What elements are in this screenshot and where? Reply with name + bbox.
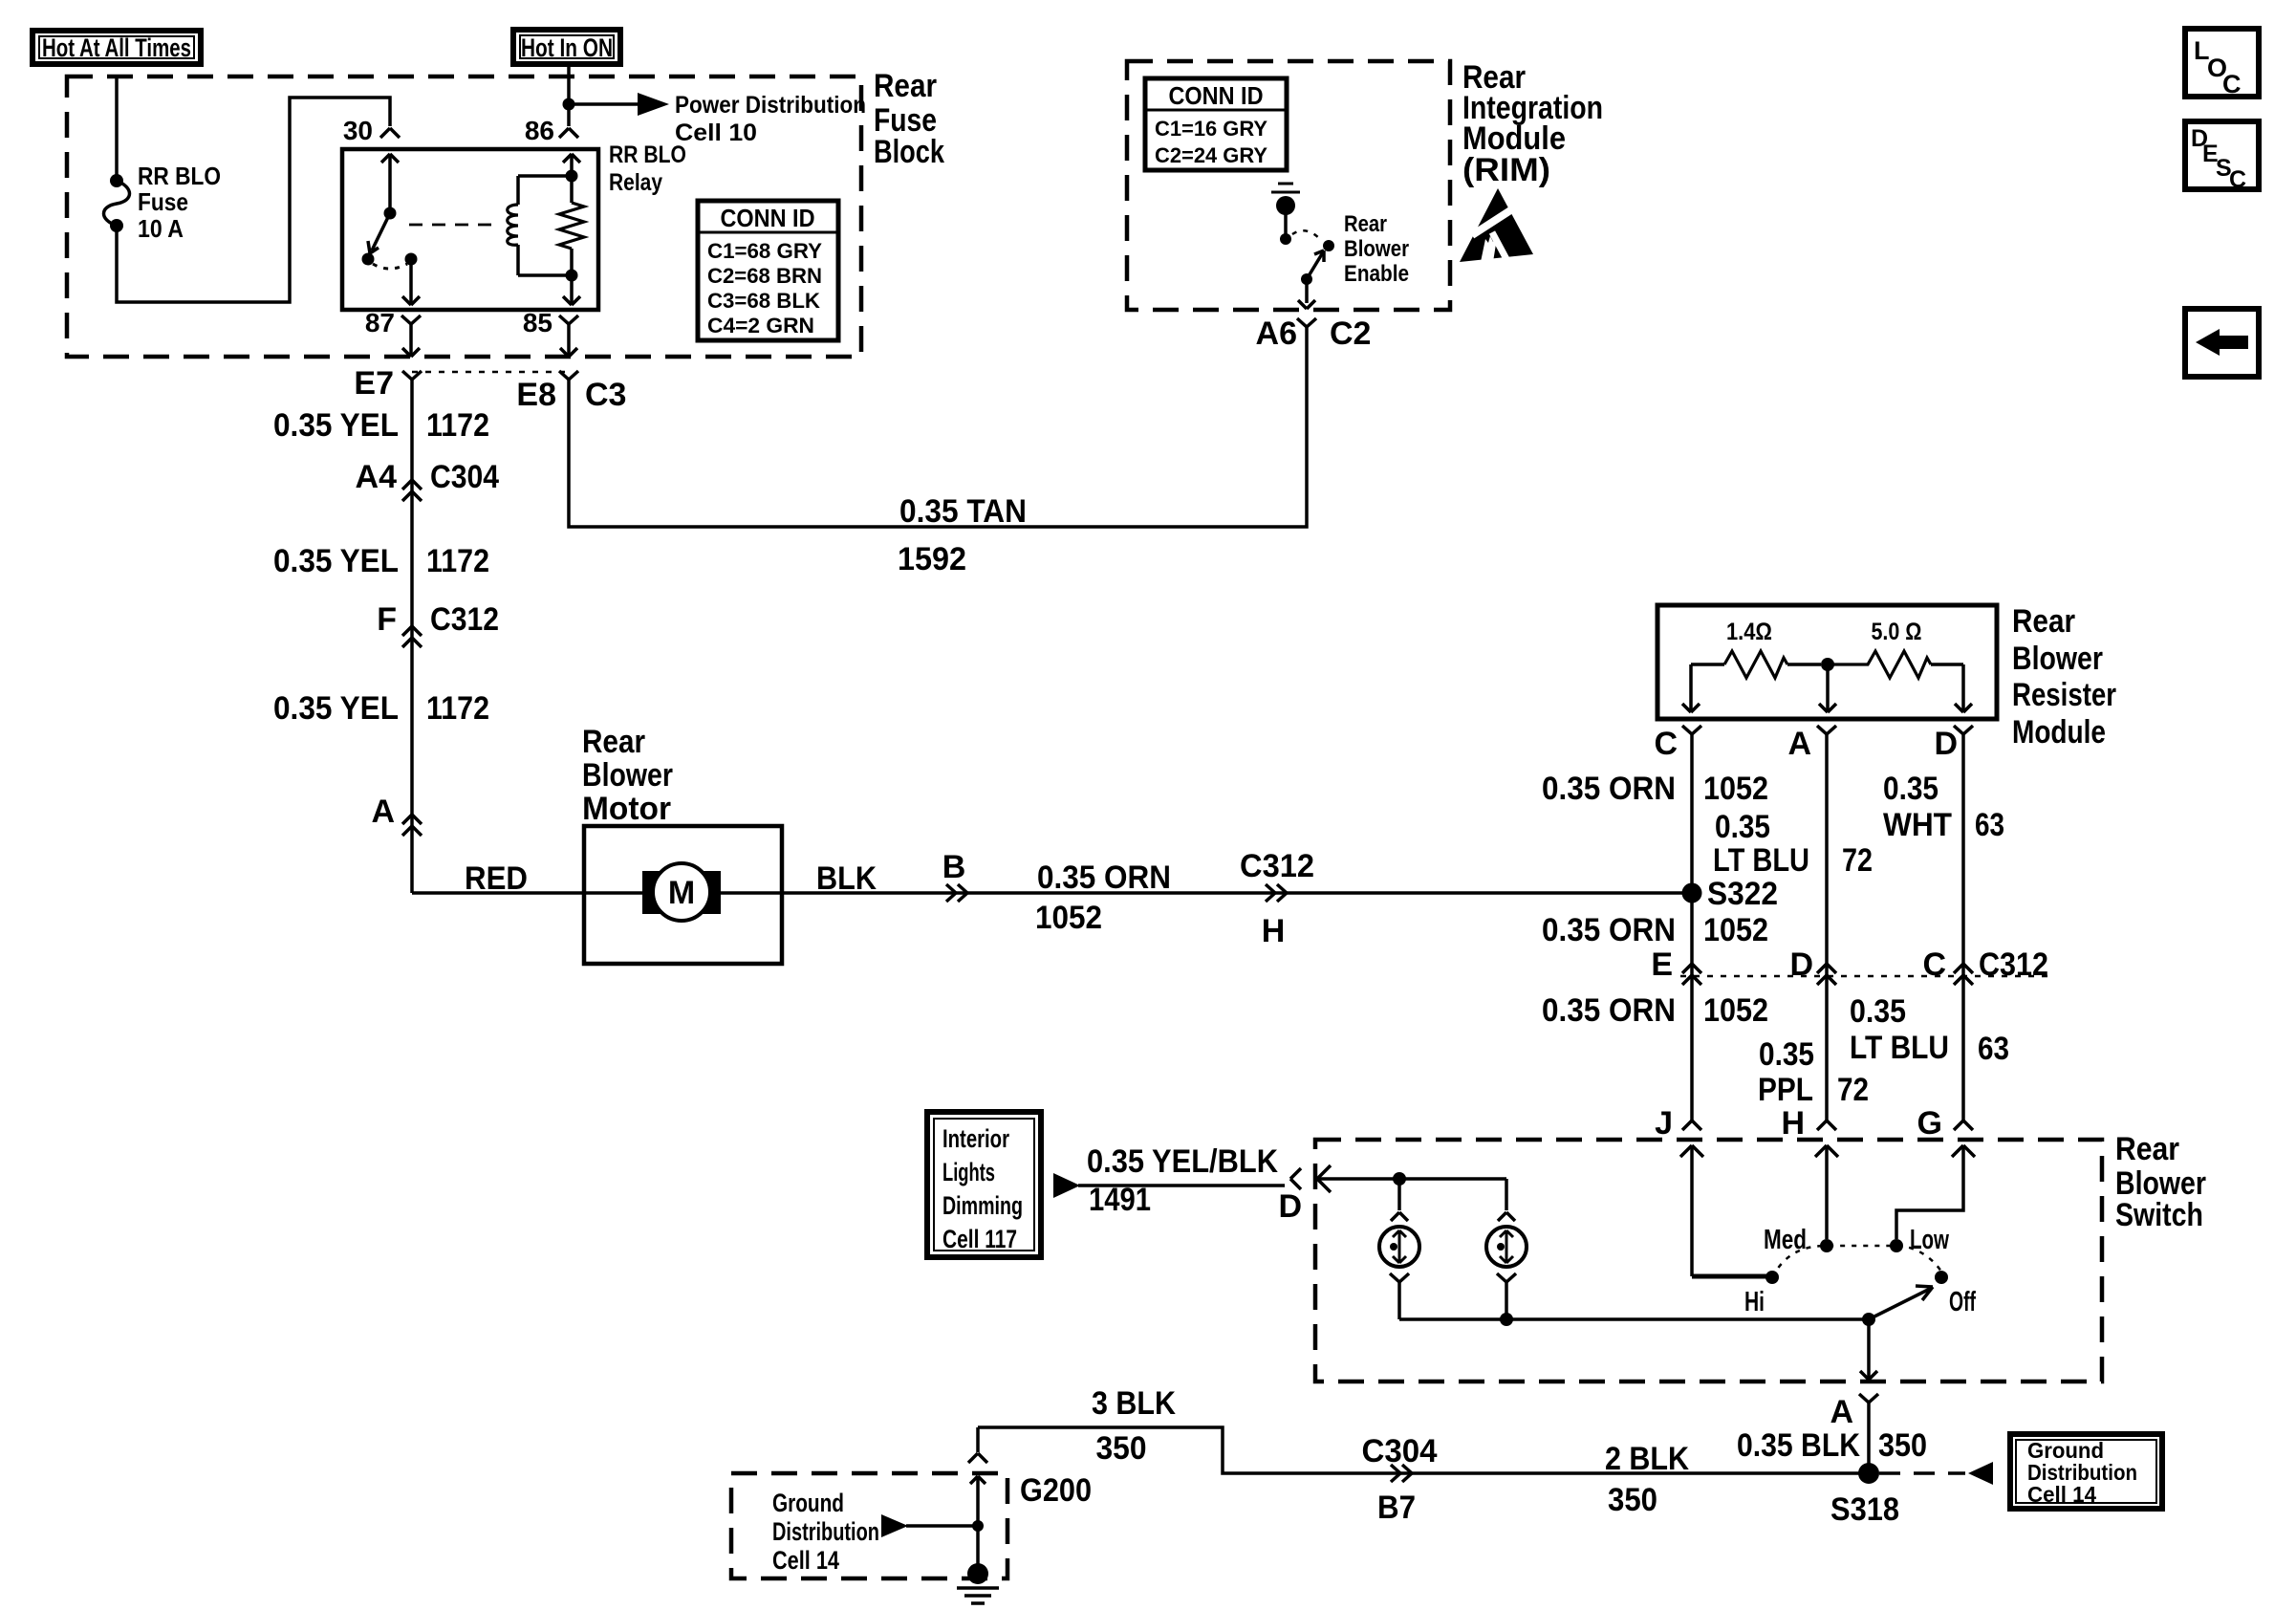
- svg-text:1.4Ω: 1.4Ω: [1726, 619, 1772, 645]
- label: Rear Blower Switch: [2115, 1131, 2206, 1233]
- svg-text:0.35 BLK: 0.35 BLK: [1737, 1427, 1860, 1464]
- svg-text:0.35: 0.35: [1883, 771, 1939, 807]
- ESD warning symbol: [1460, 188, 1533, 262]
- wire: down to G200: [976, 1427, 980, 1452]
- svg-text:0.35 ORN: 0.35 ORN: [1542, 771, 1676, 807]
- svg-text:1172: 1172: [426, 543, 489, 579]
- svg-text:A4: A4: [356, 459, 398, 495]
- label: Rear Fuse Block: [874, 68, 944, 170]
- svg-text:1052: 1052: [1703, 771, 1768, 807]
- relay common contact (pin30 side): [381, 154, 399, 220]
- svg-text:Switch: Switch: [2115, 1197, 2203, 1233]
- svg-text:C1=16 GRY: C1=16 GRY: [1155, 117, 1267, 141]
- relay RR BLO Relay box: [342, 149, 598, 310]
- connector A (motor): [371, 794, 422, 836]
- wire: E8/C3 to RIM A6 (0.35 TAN 1592): [569, 335, 1307, 527]
- svg-text:Enable: Enable: [1344, 261, 1409, 287]
- svg-text:S318: S318: [1830, 1491, 1899, 1528]
- label: 0.35 YEL 1172 (1): [273, 407, 489, 444]
- switch pin A: [1830, 1394, 1878, 1430]
- svg-text:C312: C312: [1240, 848, 1314, 884]
- wire: pin A to S318 (0.35 BLK 350): [1867, 1410, 1871, 1473]
- svg-text:Ground: Ground: [772, 1489, 844, 1517]
- svg-text:0.35 YEL/BLK: 0.35 YEL/BLK: [1087, 1143, 1278, 1180]
- wire: S322 to connector E (0.35 ORN): [1690, 893, 1694, 1120]
- label: Rear Blower Enable: [1344, 211, 1409, 287]
- relay pin 85: [523, 308, 578, 337]
- svg-text:Med: Med: [1764, 1225, 1807, 1255]
- splice S318: [1830, 1463, 1899, 1528]
- svg-text:1052: 1052: [1703, 912, 1768, 948]
- svg-text:Rear: Rear: [582, 724, 645, 760]
- connector G200: [968, 1453, 1092, 1509]
- switch D terminal wire (panel lamps feed): [1290, 1165, 1506, 1192]
- connector C (C312): [1922, 946, 2048, 985]
- svg-text:G200: G200: [1020, 1472, 1092, 1509]
- svg-text:Rear: Rear: [874, 68, 937, 104]
- pin E8 / C3: [516, 371, 626, 413]
- svg-text:Blower: Blower: [582, 757, 673, 794]
- label: Rear Blower Motor: [582, 724, 673, 827]
- svg-text:Motor: Motor: [582, 791, 671, 827]
- label: 0.35 PPL 72: [1758, 1036, 1869, 1108]
- fuse RR BLO 10A: [104, 174, 130, 232]
- Rear Fuse Block dashed enclosure: [67, 76, 861, 357]
- svg-text:0.35 TAN: 0.35 TAN: [899, 493, 1027, 530]
- resistor 5.0 ohm: [1833, 619, 1963, 678]
- label: 0.35 YEL/BLK 1491: [1087, 1143, 1278, 1218]
- module junction dot: [1821, 658, 1834, 671]
- ground G200 symbol: [957, 1563, 999, 1603]
- svg-text:72: 72: [1837, 1072, 1869, 1108]
- wire: 3 BLK 350 ground run: [978, 1427, 1862, 1473]
- svg-text:M: M: [668, 875, 695, 911]
- relay resistor (parallel): [559, 170, 584, 282]
- wire: 0.35 YEL/BLK 1491 to dimming: [1053, 1173, 1285, 1198]
- svg-text:1172: 1172: [426, 690, 489, 727]
- rear blower enable blade arrow: [1301, 250, 1324, 285]
- wire: motor BLK output: [782, 891, 1692, 895]
- svg-text:C304: C304: [430, 459, 499, 495]
- module pin A: [1787, 726, 1836, 762]
- svg-text:Cell 14: Cell 14: [2027, 1482, 2096, 1507]
- svg-text:Blower: Blower: [2012, 641, 2103, 677]
- resistor 1.4 ohm: [1691, 619, 1821, 678]
- connector E (C312): [1651, 946, 1701, 985]
- pin A6 C2: [1256, 315, 1372, 352]
- svg-text:C312: C312: [430, 601, 499, 638]
- wire: enable to pin A6: [1298, 279, 1315, 309]
- wire: pin C to S322 (0.35 ORN): [1690, 742, 1694, 893]
- wire: A down and right to motor (RED): [412, 891, 584, 895]
- switch position dashed arc: [1772, 1246, 1941, 1277]
- Med contact dot: [1764, 1225, 1833, 1255]
- connector C312 H: [1240, 848, 1314, 949]
- svg-text:Rear: Rear: [2012, 603, 2075, 640]
- svg-text:B7: B7: [1377, 1490, 1416, 1526]
- svg-text:3 BLK: 3 BLK: [1092, 1385, 1176, 1422]
- svg-text:0.35: 0.35: [1850, 993, 1906, 1030]
- lamp return bus: [1399, 1313, 1869, 1326]
- svg-text:D: D: [1934, 726, 1958, 762]
- label: RED: [465, 860, 528, 897]
- svg-text:CONN ID: CONN ID: [721, 204, 815, 232]
- RIM switch dashed arc: [1292, 230, 1322, 241]
- wire: Hot In ON to relay pin 86: [567, 64, 571, 126]
- svg-text:1491: 1491: [1089, 1182, 1151, 1218]
- wire: H into switch to Med: [1815, 1145, 1838, 1239]
- wire: pin D down (0.35 WHT 63): [1961, 742, 1965, 1120]
- svg-text:C2: C2: [1330, 315, 1371, 352]
- label box: Hot In ON: [513, 30, 620, 64]
- RIM internal ground: [1271, 184, 1300, 245]
- svg-text:Module: Module: [2012, 714, 2106, 751]
- Rear Blower Resister Module box: [1657, 605, 1997, 719]
- label: 0.35 TAN 1592: [898, 493, 1027, 577]
- svg-text:85: 85: [523, 308, 552, 337]
- svg-text:30: 30: [343, 116, 373, 145]
- svg-text:Power Distribution: Power Distribution: [675, 92, 866, 119]
- svg-text:RED: RED: [465, 860, 528, 897]
- svg-text:0.35 YEL: 0.35 YEL: [273, 690, 399, 727]
- label D (switch): [1278, 1188, 1302, 1225]
- svg-text:F: F: [377, 601, 397, 638]
- svg-text:C: C: [1654, 726, 1678, 762]
- label: Rear Blower Resister Module: [2012, 603, 2116, 751]
- connector F C312: [377, 601, 499, 647]
- svg-text:Off: Off: [1949, 1287, 1976, 1317]
- module pin A lead: [1819, 664, 1836, 712]
- svg-text:0.35 ORN: 0.35 ORN: [1037, 859, 1171, 896]
- svg-text:87: 87: [365, 308, 395, 337]
- svg-text:Lights: Lights: [942, 1158, 995, 1186]
- wire: battery feed into fuse: [115, 77, 119, 181]
- wire: E7 to A4 (0.35 YEL 1172): [410, 387, 414, 893]
- connector D (C312): [1789, 946, 1836, 985]
- svg-text:1052: 1052: [1703, 992, 1768, 1029]
- svg-text:E7: E7: [354, 365, 394, 402]
- pin E7: [354, 365, 422, 402]
- relay pin 87: [365, 308, 421, 337]
- svg-text:Rear: Rear: [1344, 211, 1387, 237]
- svg-text:5.0 Ω: 5.0 Ω: [1872, 619, 1922, 645]
- svg-text:B: B: [942, 849, 966, 885]
- relay NO contact dots: [362, 253, 418, 270]
- svg-text:1592: 1592: [898, 541, 966, 577]
- svg-text:350: 350: [1878, 1427, 1927, 1464]
- wire+arrow: to Power Distribution: [569, 93, 669, 116]
- svg-text:63: 63: [1975, 807, 2004, 843]
- label: 0.35 ORN 1052 (row1): [1542, 771, 1768, 807]
- svg-text:Cell 117: Cell 117: [942, 1225, 1017, 1253]
- svg-text:C2=24 GRY: C2=24 GRY: [1155, 143, 1267, 167]
- switch pin J: [1655, 1105, 1701, 1142]
- connector B: [942, 849, 967, 902]
- svg-text:LT BLU: LT BLU: [1850, 1030, 1949, 1066]
- svg-text:C304: C304: [1362, 1433, 1438, 1469]
- label: 0.35 YEL 1172 (2): [273, 543, 489, 579]
- relay switch blade: [368, 213, 390, 253]
- label: RR BLO Relay: [609, 141, 686, 196]
- svg-text:A: A: [1787, 726, 1811, 762]
- svg-text:10 A: 10 A: [138, 214, 184, 243]
- svg-text:0.35 ORN: 0.35 ORN: [1542, 992, 1676, 1029]
- label: Rear Integration Module (RIM): [1462, 59, 1603, 188]
- svg-text:WHT: WHT: [1883, 807, 1952, 843]
- svg-text:Dimming: Dimming: [942, 1191, 1023, 1220]
- label: 0.35 BLK 350: [1737, 1427, 1927, 1464]
- svg-text:2 BLK: 2 BLK: [1605, 1441, 1689, 1477]
- label box: Interior Lights Dimming Cell 117: [927, 1112, 1041, 1257]
- lamp feed junction dot: [1393, 1172, 1406, 1186]
- label: 0.35 WHT 63: [1883, 771, 2004, 843]
- label box: Ground Distribution Cell 14 (right): [2010, 1434, 2162, 1509]
- wire: G into switch to Low: [1896, 1145, 1975, 1239]
- svg-text:1172: 1172: [426, 407, 489, 444]
- svg-text:0.35: 0.35: [1759, 1036, 1814, 1073]
- svg-text:RR BLO: RR BLO: [609, 141, 686, 168]
- svg-text:Hot In ON: Hot In ON: [521, 33, 613, 62]
- module pin D lead: [1955, 664, 1972, 712]
- label: BLK: [816, 860, 877, 897]
- svg-text:C4=2 GRN: C4=2 GRN: [707, 314, 814, 337]
- svg-text:Block: Block: [874, 134, 944, 170]
- relay coil: [508, 176, 572, 275]
- svg-text:72: 72: [1842, 842, 1873, 879]
- svg-text:C: C: [1922, 946, 1946, 983]
- svg-text:Cell 10: Cell 10: [675, 120, 757, 146]
- wire: pin 87 to fuse block edge: [402, 332, 420, 357]
- svg-text:Low: Low: [1910, 1225, 1949, 1255]
- wire: pin A down (0.35 LT BLU 72): [1825, 742, 1829, 1120]
- panel lamp 1: [1379, 1179, 1419, 1319]
- wire: pin 86 into coil: [563, 154, 580, 176]
- svg-text:1052: 1052: [1035, 900, 1102, 936]
- wire: contact to pin 87: [402, 259, 420, 305]
- label: 0.35 YEL 1172 (3): [273, 690, 489, 727]
- svg-text:0.35 ORN: 0.35 ORN: [1542, 912, 1676, 948]
- switch pin G: [1917, 1105, 1973, 1142]
- module pin C: [1654, 726, 1701, 762]
- relay pin 86: [525, 116, 578, 145]
- svg-text:C: C: [2222, 70, 2242, 98]
- svg-text:CONN ID: CONN ID: [1169, 81, 1264, 110]
- label: 0.35 ORN 1052 (motor): [1035, 859, 1171, 936]
- svg-text:D: D: [1789, 946, 1813, 983]
- svg-text:Cell 14: Cell 14: [772, 1546, 839, 1575]
- label: 2 BLK 350: [1605, 1441, 1689, 1518]
- svg-text:86: 86: [525, 116, 554, 145]
- svg-text:D: D: [1278, 1188, 1302, 1225]
- svg-text:350: 350: [1096, 1430, 1147, 1467]
- svg-text:C3=68 BLK: C3=68 BLK: [707, 289, 820, 313]
- svg-text:Distribution: Distribution: [772, 1517, 879, 1546]
- wire: pin 85 to fuse block edge: [560, 332, 577, 357]
- svg-text:Interior: Interior: [942, 1124, 1009, 1153]
- Ground Distribution dashed enclosure (G200): [731, 1473, 1007, 1578]
- wire: fuse to relay pin 30: [117, 98, 390, 302]
- motor symbol M: [584, 863, 782, 921]
- LOC box: [2185, 29, 2259, 98]
- label box: Hot At All Times: [32, 31, 201, 64]
- dashed link to ground distribution: [1879, 1462, 1993, 1485]
- svg-text:E8: E8: [516, 377, 556, 413]
- svg-text:C3: C3: [585, 377, 626, 413]
- module pin D: [1934, 726, 1973, 762]
- connector C312 face (dashed): [1680, 975, 2055, 978]
- svg-text:H: H: [1781, 1105, 1805, 1142]
- svg-text:Hot At All Times: Hot At All Times: [42, 33, 191, 62]
- svg-text:(RIM): (RIM): [1462, 152, 1550, 188]
- svg-text:LT BLU: LT BLU: [1713, 842, 1809, 879]
- label: Power Distribution Cell 10: [675, 92, 866, 146]
- splice S322: [1682, 876, 1779, 912]
- label: 0.35 ORN 1052 (row2): [1542, 912, 1768, 948]
- DESC box: [2185, 121, 2259, 193]
- label: Ground Distribution Cell 14 (left): [772, 1489, 879, 1575]
- svg-text:S322: S322: [1707, 876, 1778, 912]
- svg-text:0.35 YEL: 0.35 YEL: [273, 407, 399, 444]
- svg-text:RR BLO: RR BLO: [138, 162, 221, 190]
- wire: coil to pin 85: [563, 275, 580, 305]
- svg-text:Relay: Relay: [609, 169, 662, 196]
- svg-text:C1=68 GRY: C1=68 GRY: [707, 239, 822, 263]
- svg-text:C: C: [2229, 166, 2246, 193]
- CONN ID table (fuse block): [698, 201, 838, 340]
- Off contact dot: [1935, 1271, 1976, 1317]
- svg-text:350: 350: [1608, 1482, 1657, 1518]
- svg-text:Resister: Resister: [2012, 677, 2116, 713]
- svg-text:E: E: [1651, 946, 1673, 983]
- svg-text:J: J: [1655, 1105, 1673, 1142]
- relay dashed actuation link: [409, 224, 501, 227]
- connector A4 C304: [356, 459, 500, 501]
- RIM switch contact dot: [1323, 240, 1334, 251]
- svg-text:63: 63: [1978, 1031, 2009, 1067]
- svg-text:Blower: Blower: [1344, 236, 1409, 262]
- Low contact dot: [1890, 1225, 1949, 1255]
- CONN ID table (RIM): [1145, 78, 1287, 170]
- wire: G200 into ground: [970, 1476, 986, 1566]
- svg-text:Hi: Hi: [1744, 1287, 1765, 1317]
- junction dot at pin 86 branch: [563, 98, 575, 111]
- label: 0.35 LT BLU 72: [1713, 809, 1873, 879]
- svg-text:BLK: BLK: [816, 860, 877, 897]
- svg-text:C312: C312: [1979, 946, 2048, 983]
- relay pin 30: [343, 116, 400, 145]
- svg-text:C2=68 BRN: C2=68 BRN: [707, 264, 822, 288]
- ground branch arrow: [881, 1514, 984, 1537]
- Hi contact dot: [1744, 1271, 1779, 1317]
- svg-text:PPL: PPL: [1758, 1072, 1813, 1108]
- label: 0.35 ORN 1052 (row3): [1542, 992, 1768, 1029]
- svg-text:Rear: Rear: [2115, 1131, 2179, 1167]
- Rear Integration Module dashed enclosure: [1127, 61, 1450, 310]
- Rear Blower Motor box: [584, 826, 782, 964]
- svg-text:G: G: [1917, 1105, 1942, 1142]
- connector C3 face (dashed): [412, 371, 569, 374]
- wire: wiper to pin A: [1860, 1319, 1877, 1380]
- svg-text:0.35: 0.35: [1715, 809, 1770, 845]
- connector C304 B7: [1362, 1433, 1438, 1526]
- svg-text:A6: A6: [1256, 315, 1297, 352]
- label: 3 BLK 350: [1092, 1385, 1176, 1467]
- wiper junction dot: [1862, 1313, 1875, 1326]
- svg-text:H: H: [1262, 913, 1286, 949]
- module pin C lead: [1682, 664, 1700, 712]
- switch wiper arrow: [1869, 1286, 1933, 1319]
- svg-text:A: A: [1830, 1394, 1853, 1430]
- svg-text:0.35 YEL: 0.35 YEL: [273, 543, 399, 579]
- Rear Blower Switch dashed enclosure: [1315, 1140, 2102, 1382]
- panel lamp 2: [1486, 1179, 1527, 1319]
- label: RR BLO Fuse 10 A: [138, 162, 221, 243]
- label: 0.35 LT BLU 63 (lower): [1850, 993, 2009, 1067]
- svg-text:Fuse: Fuse: [138, 187, 188, 216]
- back-arrow box: [2185, 309, 2259, 377]
- wire: J into switch to Hi: [1680, 1145, 1766, 1276]
- switch pin H: [1781, 1105, 1836, 1142]
- svg-text:A: A: [371, 794, 395, 830]
